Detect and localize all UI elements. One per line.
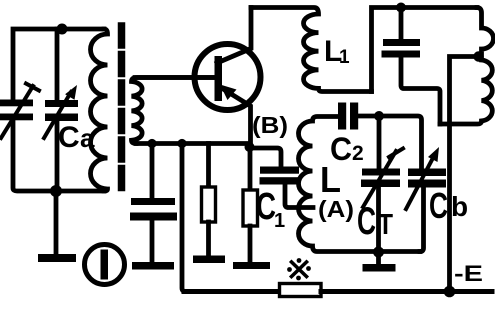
transformer T1 core (dashed) [118, 26, 126, 196]
ground G2 [132, 262, 174, 270]
wire emitter junction to C1 [250, 148, 282, 167]
resistor R2 lower lead [248, 226, 253, 262]
capacitor CT lead [377, 116, 382, 169]
transformer T1 secondary winding [132, 78, 216, 144]
symbol star (kome mark) [292, 262, 307, 277]
label C2 [330, 131, 364, 167]
wire bottom rail right segment [321, 289, 492, 294]
meter I (circled) [85, 245, 125, 285]
wire to ground G1 [54, 191, 59, 254]
inductor L2 (right coil) [440, 8, 494, 125]
capacitor CT arrow [363, 149, 403, 208]
capacitor C1 lower lead / wire to node A [285, 185, 313, 208]
resistor R3 (starred) [280, 284, 322, 297]
label Cb [429, 185, 468, 226]
resistor R1 lead [206, 144, 211, 188]
label L1 [324, 35, 350, 68]
transistor Q1 emitter arrow (PNP) [220, 85, 237, 101]
ground G3 [193, 256, 225, 264]
resistor R2 [243, 190, 258, 226]
svg-text:C: C [357, 200, 376, 243]
wire Ca vertical top [55, 29, 60, 100]
node middle rail junction 1 [147, 139, 156, 148]
svg-text:C: C [58, 121, 80, 154]
resistor R1 lower lead [206, 222, 211, 256]
node L2 tap [473, 51, 483, 61]
node middle rail junction 2 [177, 139, 186, 148]
wire bottom rail left segment [184, 289, 280, 294]
node tank1 bottom junction [50, 185, 62, 197]
label C1 [256, 186, 285, 232]
wire tank1 left bottom [13, 120, 104, 191]
svg-text:-E: -E [454, 261, 483, 286]
resistor R2 lead [248, 148, 253, 190]
wire middle rail [136, 141, 250, 146]
node CT bottom junction [373, 247, 384, 258]
capacitor C3 plates [130, 198, 177, 221]
capacitor C2 plates [338, 103, 358, 130]
capacitor C3 (bypass) lead [150, 144, 155, 199]
capacitor Cb arrow [406, 147, 439, 209]
label Ca [58, 121, 95, 154]
resistor R1 [202, 187, 216, 222]
wire tank1 top rail and left vertical [13, 29, 104, 100]
transistor Q1 base bar [215, 56, 223, 101]
inductor L (tank2) [299, 117, 420, 252]
label CT [357, 200, 393, 243]
capacitor Cb plates [408, 169, 446, 188]
inductor L1 with collector rail [251, 8, 372, 92]
svg-text:T: T [378, 209, 393, 241]
capacitor VC1 arrow [1, 84, 39, 139]
wire rail B with right corner [372, 8, 478, 92]
wire Ca vertical bottom [55, 121, 60, 191]
wire tap to -E rail [450, 57, 479, 292]
capacitor C1 plates [260, 167, 300, 185]
svg-text:(B): (B) [252, 112, 288, 138]
svg-text:1: 1 [274, 210, 285, 232]
wire C2 to Cb corner (tank2 top rail) [359, 116, 422, 169]
wire to ground G5 [376, 252, 381, 264]
transistor Q1 collector [217, 8, 251, 64]
capacitor C4 plates [382, 39, 421, 58]
svg-text:C: C [256, 186, 276, 228]
transistor Q1 body [195, 44, 261, 110]
meter I bar [101, 250, 109, 280]
node rail B junction [396, 3, 406, 13]
capacitor C4 top lead [399, 8, 404, 40]
transformer T1 primary winding [91, 29, 108, 191]
ground G5 [363, 264, 396, 272]
ground G4 [233, 262, 270, 269]
svg-text:C: C [429, 185, 448, 226]
capacitor Ca (plates) [45, 100, 78, 121]
capacitor VC1 (left variable, plates) [0, 100, 33, 121]
svg-text:1: 1 [339, 47, 350, 68]
capacitor C3 lower lead [150, 221, 155, 263]
capacitor Cb lower lead [420, 187, 424, 252]
capacitor C4 lower lead wire [401, 58, 440, 125]
wire base from secondary [135, 75, 215, 80]
node -E junction [444, 286, 456, 298]
node emitter junction B [245, 142, 255, 152]
ground G1 [38, 254, 76, 262]
svg-text:2: 2 [352, 142, 364, 165]
svg-text:C: C [330, 131, 352, 167]
capacitor Ca arrow [44, 85, 77, 138]
node CT top junction [374, 111, 384, 121]
node tank1 top junction [57, 24, 68, 35]
capacitor CT plates [361, 169, 400, 188]
svg-text:b: b [451, 191, 468, 222]
svg-text:(A): (A) [318, 196, 354, 222]
capacitor CT lower lead [376, 187, 381, 252]
wire down to bottom rail [182, 144, 186, 292]
transistor Q1 emitter [222, 88, 251, 145]
